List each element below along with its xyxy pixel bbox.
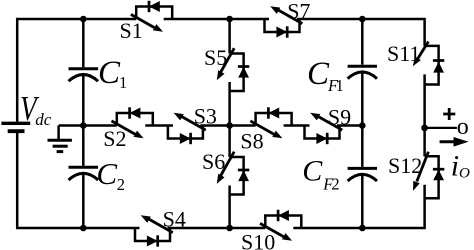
wire: mid rail S2 to S3 <box>145 124 173 127</box>
svg-text:1: 1 <box>336 76 344 95</box>
svg-text:i: i <box>451 149 459 182</box>
wire: center column S5 to S6 (through mid node) <box>228 82 231 157</box>
wire: mid rail S3 to S8 (through center node) <box>200 124 255 127</box>
svg-text:S11: S11 <box>387 41 420 66</box>
capacitor C1 <box>69 69 99 82</box>
wire: CF column from top rail to CF1 <box>361 19 364 65</box>
node: output terminal junction <box>421 125 428 132</box>
wire: center column S6 to bottom rail <box>228 186 231 229</box>
switch S1 <box>131 1 172 32</box>
svg-text:S6: S6 <box>202 149 225 174</box>
wire: CF column below CF2 to bottom rail <box>361 176 364 229</box>
wire: C1 column from top rail <box>82 19 85 67</box>
node: bottom rail / CF column junction <box>359 225 366 232</box>
svg-text:S1: S1 <box>120 18 143 43</box>
wire: left rail lower + bottom rail left segment <box>17 133 139 228</box>
wire: right column S11 to S12 (through output node) <box>423 74 426 156</box>
ground <box>48 126 72 152</box>
label + (output polarity) <box>443 108 455 120</box>
battery Vdc positive plate <box>1 122 30 125</box>
switch S6 <box>217 152 250 195</box>
wire: top rail middle segment <box>164 18 269 21</box>
svg-text:dc: dc <box>35 110 52 129</box>
svg-text:S10: S10 <box>241 229 275 250</box>
switch S5 <box>217 48 250 91</box>
switch S10 <box>260 210 301 241</box>
svg-text:S12: S12 <box>388 153 422 178</box>
wire: mid rail S8 to S9 <box>284 124 310 127</box>
svg-text:S5: S5 <box>204 45 227 70</box>
switch S2 <box>112 107 153 138</box>
svg-text:C: C <box>302 154 323 187</box>
switch S9 <box>305 113 343 145</box>
switch S12 <box>413 152 444 198</box>
svg-text:S2: S2 <box>103 126 126 151</box>
wire: CF column between CF1 and CF2 <box>361 73 364 167</box>
switch S4 <box>135 215 173 247</box>
wire: center column top rail to S5 <box>228 19 231 54</box>
node: mid rail / CF column junction <box>359 122 366 129</box>
wire: top rail right segment + right column down to S11 <box>297 19 425 46</box>
switch S7 <box>265 6 303 38</box>
svg-text:C: C <box>307 56 330 92</box>
wire: right column below S12 + bottom rail right segment <box>293 185 424 228</box>
battery Vdc negative plate <box>8 129 25 133</box>
wire: top rail left segment + left rail upper <box>17 19 136 122</box>
node: top rail / center column junction <box>226 16 233 23</box>
svg-text:S9: S9 <box>328 105 351 130</box>
svg-text:S3: S3 <box>194 104 217 129</box>
node: bottom rail / center column junction <box>226 225 233 232</box>
switch S8 <box>250 107 291 138</box>
wire: mid rail S9 to CF column <box>337 124 362 127</box>
svg-text:2: 2 <box>117 175 125 194</box>
capacitor CF1 <box>348 66 377 78</box>
node: mid rail C1/C2 midpoint <box>80 122 87 129</box>
wire: bottom rail S4 to S10 <box>168 227 266 230</box>
svg-text:O: O <box>459 166 470 182</box>
wire: mid rail from ground tap to S2 <box>59 124 117 127</box>
svg-text:1: 1 <box>119 73 127 92</box>
svg-text:S7: S7 <box>287 0 310 24</box>
svg-text:C: C <box>96 156 117 191</box>
svg-text:2: 2 <box>331 174 339 193</box>
node: top rail / CF column junction <box>359 16 366 23</box>
svg-text:C: C <box>98 55 121 91</box>
wire: C column below C2 to bottom rail <box>82 175 85 229</box>
node: bottom rail / C2 column junction <box>80 225 87 232</box>
switch S11 <box>413 42 445 85</box>
switch S3 <box>168 113 206 145</box>
capacitor C2 <box>69 167 99 180</box>
svg-text:S8: S8 <box>240 128 263 153</box>
svg-text:o: o <box>457 114 469 140</box>
node: top rail / C1 column junction <box>80 16 87 23</box>
output terminal wire <box>425 127 457 129</box>
output current arrow <box>440 137 469 147</box>
capacitor CF2 <box>348 168 377 181</box>
svg-text:S4: S4 <box>163 206 186 231</box>
node: mid rail / center column junction <box>226 122 233 129</box>
wire: C column between C1 and C2 <box>82 76 85 166</box>
